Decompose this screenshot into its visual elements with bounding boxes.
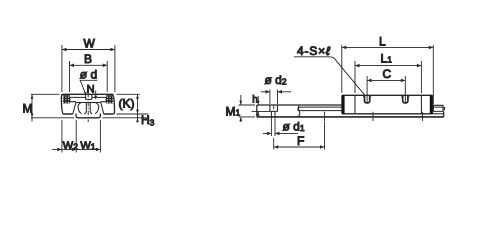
rail break curve [298,105,300,117]
svg-text:ø d1: ø d1 [283,120,305,134]
rail counterbore phi-d2 [270,105,278,111]
end cap boundary left [354,95,356,114]
svg-text:F: F [297,134,304,148]
svg-text:W: W [84,37,96,51]
svg-text:ø d2: ø d2 [265,73,287,87]
rail hole centerline tick 3 [372,112,374,121]
svg-text:L1: L1 [381,51,393,65]
svg-text:L: L [379,34,386,48]
svg-text:H3: H3 [141,113,155,128]
rail bottom line [257,116,444,118]
rail right edge [443,111,445,117]
rail left edge [256,105,258,117]
hole centerline [273,106,275,111]
M dimension [31,94,74,118]
rail hole centerline tick 4 [422,112,424,121]
svg-text:(K): (K) [119,97,135,111]
svg-text:ø d: ø d [80,67,97,81]
rail lower part [76,114,100,118]
rail head top line [76,102,101,104]
C dimension [367,76,405,102]
L dimension [342,45,434,105]
W dimension [62,45,115,92]
svg-text:M: M [23,102,33,116]
rail hole phi-d1 [271,111,275,117]
right extension lines [102,94,148,118]
W2 W1 dimension [62,120,101,153]
block outline [342,95,432,114]
cavity step lines [69,101,106,103]
block mounting hole 2 [403,95,408,103]
svg-text:B: B [84,52,92,66]
end seal left (filled) [342,95,345,114]
rail groove band [298,107,342,111]
block leg inner slants [73,103,104,115]
cavity walls [70,97,106,101]
hatched seal left [63,95,70,103]
end cap boundary right [420,95,422,114]
block mounting hole 1 [365,95,370,103]
svg-text:W2: W2 [63,140,78,152]
rail bolt hole [84,103,92,115]
centerline [87,93,89,122]
svg-text:M1: M1 [226,104,241,118]
svg-text:4-S×ℓ: 4-S×ℓ [297,44,331,58]
block cavity ceiling [70,96,106,98]
svg-text:W1: W1 [80,140,95,152]
grease nipple [433,105,444,111]
rail groove curve left [78,103,82,114]
svg-text:C: C [383,67,392,81]
L1 dimension [355,61,421,93]
K dimension line [137,94,139,122]
B dimension [70,61,108,92]
hatched seal right [106,95,113,103]
block outline [61,94,114,114]
rail hole centerline tick 2 [324,112,326,121]
end seal right (filled) [430,95,433,114]
rail groove curve right [95,103,99,114]
rail top line [257,104,342,106]
svg-text:h: h [252,94,258,105]
groove shoulder right of block [432,113,443,115]
svg-text:N: N [87,83,95,95]
oil hole in block top [86,94,92,99]
